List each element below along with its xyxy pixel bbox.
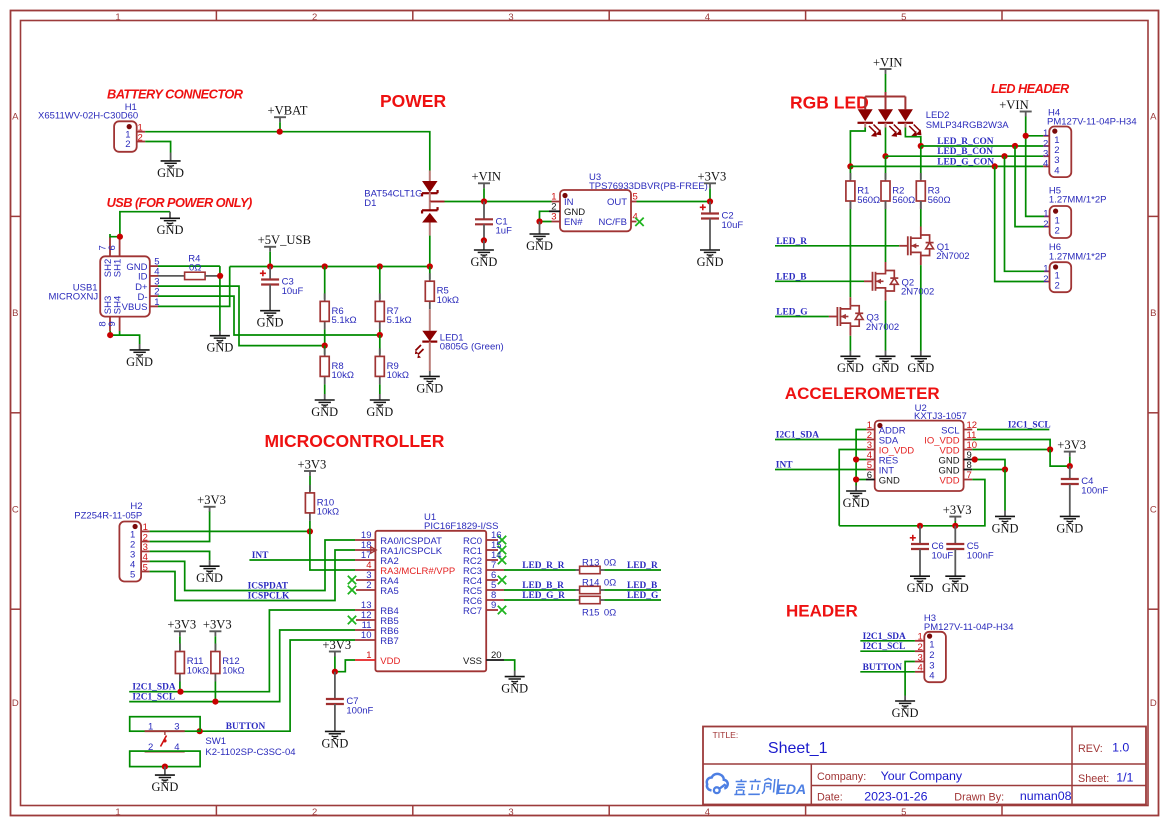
svg-text:GND: GND bbox=[907, 581, 934, 595]
EasyEDA logo cloud bbox=[707, 774, 728, 793]
svg-text:10kΩ: 10kΩ bbox=[387, 370, 409, 381]
wire H6 pin1 branch bbox=[1005, 156, 1045, 271]
svg-text:+3V3: +3V3 bbox=[203, 618, 232, 632]
ground GND R8 bbox=[324, 394, 326, 400]
ground GND U2 left bbox=[855, 486, 857, 492]
U1 pin 12 RB5 bbox=[356, 619, 375, 621]
svg-text:R13: R13 bbox=[582, 558, 599, 569]
IC U3 body bbox=[560, 190, 631, 231]
svg-text:100nF: 100nF bbox=[1081, 485, 1108, 496]
svg-text:9: 9 bbox=[491, 600, 496, 611]
svg-text:BUTTON: BUTTON bbox=[226, 722, 266, 732]
wire net I2C1_SDA accel bbox=[775, 439, 866, 441]
svg-text:10kΩ: 10kΩ bbox=[187, 665, 209, 676]
wire +3V3 out net bbox=[637, 201, 711, 203]
wire net LED_R bbox=[775, 245, 899, 247]
svg-text:+3V3: +3V3 bbox=[167, 618, 196, 632]
ground GND H2 bbox=[209, 560, 211, 566]
svg-text:2: 2 bbox=[312, 807, 317, 818]
wire LED2 left cathode to R1 node bbox=[864, 123, 866, 128]
svg-text:HEADER: HEADER bbox=[786, 602, 858, 621]
junction LED_R_CON to H5.2 bbox=[1012, 143, 1018, 149]
svg-text:GND: GND bbox=[1056, 521, 1083, 535]
svg-text:2N7002: 2N7002 bbox=[901, 287, 934, 298]
junction C2 bbox=[707, 198, 713, 204]
svg-text:+3V3: +3V3 bbox=[698, 170, 727, 184]
svg-text:LED_R: LED_R bbox=[627, 561, 658, 571]
switch SW1 top loop bbox=[130, 717, 200, 732]
wire net LED_G_R / R15 bbox=[504, 599, 576, 601]
svg-text:MICROXNJ: MICROXNJ bbox=[48, 292, 98, 303]
svg-text:3: 3 bbox=[174, 722, 179, 733]
connector H2 pins bbox=[141, 530, 150, 532]
svg-text:+3V3: +3V3 bbox=[943, 503, 972, 517]
junction U2 RES bbox=[853, 456, 859, 462]
capacitor C2 10uF bbox=[709, 202, 711, 214]
ground GND H3 bbox=[904, 696, 906, 702]
ground GND U1 VSS bbox=[514, 671, 516, 677]
svg-text:GND: GND bbox=[837, 361, 864, 375]
ground GND U3 bbox=[539, 222, 541, 235]
U3 pin 3 EN# bbox=[552, 221, 561, 223]
svg-text:10kΩ: 10kΩ bbox=[222, 665, 244, 676]
junction VDD C7 bbox=[332, 669, 338, 675]
svg-text:LED_B_CON: LED_B_CON bbox=[937, 147, 993, 157]
svg-text:6: 6 bbox=[107, 245, 118, 250]
resistor R6 5.1k bbox=[324, 267, 326, 300]
wire H2.5 ICSPCLK to RA1 bbox=[150, 550, 355, 601]
ground GND R4 bbox=[219, 331, 221, 336]
svg-text:I2C1_SCL: I2C1_SCL bbox=[1008, 421, 1051, 431]
svg-text:GND: GND bbox=[157, 223, 184, 237]
U3 pin 1 IN bbox=[552, 201, 561, 203]
ground GND C7 bbox=[334, 726, 336, 732]
svg-text:I2C1_SDA: I2C1_SDA bbox=[132, 683, 175, 693]
USB1 bottom pins 8 9 bbox=[109, 317, 111, 331]
IC U1 body bbox=[375, 531, 486, 672]
svg-text:GND: GND bbox=[416, 381, 443, 395]
U2 pin 7 VDD bbox=[964, 479, 973, 481]
svg-text:+3V3: +3V3 bbox=[1057, 438, 1086, 452]
wire net LED_B_CON bbox=[886, 155, 1044, 157]
svg-text:ACCELEROMETER: ACCELEROMETER bbox=[785, 384, 940, 403]
svg-text:K2-1102SP-C3SC-04: K2-1102SP-C3SC-04 bbox=[205, 747, 295, 758]
ground GND C4 bbox=[1069, 511, 1071, 517]
svg-text:Date:: Date: bbox=[817, 792, 843, 804]
svg-text:numan08: numan08 bbox=[1020, 789, 1072, 803]
svg-text:2: 2 bbox=[138, 133, 143, 144]
svg-text:POWER: POWER bbox=[380, 91, 446, 111]
svg-text:5: 5 bbox=[901, 807, 906, 818]
U2 pin 12 SCL bbox=[964, 429, 973, 431]
junction rail R7 bbox=[377, 263, 383, 269]
wire net LED_R_R / R13 bbox=[504, 569, 576, 571]
wire USB GND pin to ground bbox=[158, 265, 220, 267]
U3 pin 4 NC/FB no-connect bbox=[631, 221, 637, 223]
U1 pin 17 RA2 bbox=[355, 559, 375, 561]
svg-text:0805G (Green): 0805G (Green) bbox=[440, 341, 504, 352]
svg-text:GND: GND bbox=[257, 316, 284, 330]
svg-text:1.27MM/1*2P: 1.27MM/1*2P bbox=[1049, 251, 1107, 262]
svg-text:1: 1 bbox=[929, 640, 934, 651]
svg-text:1: 1 bbox=[366, 650, 371, 661]
svg-text:10kΩ: 10kΩ bbox=[317, 507, 339, 518]
svg-text:+VBAT: +VBAT bbox=[268, 104, 308, 118]
junction +VIN H4.1 bbox=[1023, 133, 1029, 139]
svg-text:I2C1_SCL: I2C1_SCL bbox=[132, 693, 175, 703]
U2 pin 1 ADDR bbox=[866, 429, 875, 431]
resistor R8 10k bbox=[324, 346, 326, 354]
svg-text:EDA: EDA bbox=[777, 781, 807, 797]
wire +5V_USB rail bbox=[230, 266, 430, 268]
svg-text:0Ω: 0Ω bbox=[189, 263, 201, 274]
svg-text:GND: GND bbox=[366, 405, 393, 419]
connector H4 pins bbox=[1043, 135, 1049, 137]
resistor R15 0ohm bbox=[576, 599, 580, 601]
U2 pin 10 VDD bbox=[964, 449, 973, 451]
svg-text:INT: INT bbox=[776, 461, 793, 471]
svg-text:D1: D1 bbox=[364, 198, 376, 209]
ground GND SW1 bbox=[164, 767, 166, 776]
svg-text:VDD: VDD bbox=[940, 475, 960, 486]
U1 pin 10 RB7 bbox=[355, 639, 375, 641]
wire VBUS to +5V rail bbox=[158, 267, 230, 307]
wire U2 pin11 pin10 to +3V3 C4 bbox=[972, 440, 1050, 450]
svg-text:MICROCONTROLLER: MICROCONTROLLER bbox=[265, 431, 445, 451]
junction U2 VDD pins bbox=[1047, 446, 1053, 452]
ground GND battery bbox=[170, 153, 172, 161]
svg-text:BUTTON: BUTTON bbox=[863, 663, 903, 673]
wire net BUTTON mcu bbox=[200, 640, 355, 731]
switch SW1 pins 2 4 bar bbox=[145, 751, 185, 753]
svg-text:Your Company: Your Company bbox=[881, 769, 963, 783]
svg-text:TITLE:: TITLE: bbox=[713, 730, 739, 740]
switch SW1 bottom loop bbox=[130, 751, 200, 767]
svg-text:LED_R: LED_R bbox=[776, 237, 807, 247]
border row ticks right bbox=[1148, 215, 1159, 217]
U1 pin 11 RB6 bbox=[355, 629, 375, 631]
border column ticks bottom bbox=[215, 806, 217, 816]
U1 pin 5 RC5 bbox=[486, 589, 504, 591]
svg-text:1: 1 bbox=[115, 12, 120, 23]
svg-text:A: A bbox=[12, 112, 19, 123]
capacitor C5 100nF bbox=[954, 526, 956, 544]
svg-text:LED_G: LED_G bbox=[627, 591, 659, 601]
connector H3 pins bbox=[915, 640, 924, 642]
resistor R7 5.1k bbox=[379, 267, 381, 300]
junction U2 GND6 bbox=[853, 476, 859, 482]
svg-text:+3V3: +3V3 bbox=[298, 457, 327, 471]
wire U1 VSS to ground bbox=[504, 660, 515, 671]
svg-text:4: 4 bbox=[705, 12, 710, 23]
svg-text:B: B bbox=[1150, 308, 1156, 319]
wire net LED_B right bbox=[605, 589, 662, 591]
resistor R9 10k bbox=[379, 335, 381, 354]
svg-text:C: C bbox=[1150, 505, 1157, 516]
svg-text:LED_G_R: LED_G_R bbox=[522, 591, 565, 601]
svg-text:Drawn By:: Drawn By: bbox=[954, 792, 1004, 804]
wire net LED_R_CON bbox=[921, 145, 1044, 147]
wire LED1 to ground bbox=[429, 342, 431, 371]
resistor R2 560ohm bbox=[885, 156, 887, 179]
U1 pin 15 RC1 bbox=[486, 549, 498, 551]
svg-text:5.1kΩ: 5.1kΩ bbox=[332, 315, 357, 326]
U2 pin 9 GND bbox=[964, 459, 973, 461]
svg-text:C: C bbox=[12, 505, 19, 516]
U2 pin 6 GND bbox=[866, 479, 875, 481]
svg-text:SW1: SW1 bbox=[205, 736, 226, 747]
junction C1 ground stub bbox=[481, 237, 487, 243]
svg-text:GND: GND bbox=[992, 521, 1019, 535]
wire H2.4 ICSPDAT to RA0 bbox=[150, 540, 355, 591]
wire Q1 source to ground bbox=[920, 265, 922, 350]
svg-text:GND: GND bbox=[196, 571, 223, 585]
ground GND C6 bbox=[919, 571, 921, 577]
svg-text:LED HEADER: LED HEADER bbox=[991, 81, 1070, 96]
svg-text:560Ω: 560Ω bbox=[892, 195, 915, 206]
svg-text:VDD: VDD bbox=[380, 656, 400, 667]
svg-text:USB (FOR POWER ONLY): USB (FOR POWER ONLY) bbox=[107, 195, 252, 210]
wire USB1 shield top to ground bbox=[110, 212, 170, 237]
wire net INT accel bbox=[775, 469, 866, 471]
svg-text:10uF: 10uF bbox=[932, 550, 954, 561]
junction LED_B_CON to H6.1 bbox=[1001, 153, 1007, 159]
wire MCLR to RA3 bbox=[310, 531, 355, 570]
svg-text:3: 3 bbox=[508, 12, 513, 23]
wire net I2C1_SCL mcu bbox=[129, 630, 355, 702]
svg-text:A: A bbox=[1150, 112, 1157, 123]
capacitor C4 100nF bbox=[1069, 466, 1071, 479]
U1 pin 13 RB4 bbox=[355, 609, 375, 611]
capacitor C3 10uF bbox=[269, 267, 271, 280]
ground GND U2 right bbox=[1004, 511, 1006, 517]
svg-text:INT: INT bbox=[252, 551, 269, 561]
EasyEDA logo text bbox=[734, 779, 778, 795]
diode D1 upper schottky bbox=[429, 171, 431, 182]
wire net I2C1_SDA mcu bbox=[129, 610, 355, 692]
title block dividers bbox=[703, 763, 1146, 765]
svg-text:I2C1_SCL: I2C1_SCL bbox=[863, 642, 906, 652]
svg-text:2: 2 bbox=[1055, 281, 1060, 292]
wire net LED_G_CON bbox=[850, 165, 1043, 167]
U1 pin 19 RA0/ICSPDAT bbox=[355, 539, 375, 541]
svg-text:0Ω: 0Ω bbox=[604, 607, 616, 618]
LED2 red chip bbox=[858, 109, 873, 121]
wire H3 pin3 to ground bbox=[905, 662, 915, 696]
svg-text:RB7: RB7 bbox=[380, 636, 398, 647]
svg-text:LED_B: LED_B bbox=[776, 272, 806, 282]
USB1 right pins bbox=[150, 265, 158, 267]
svg-text:5: 5 bbox=[143, 562, 148, 573]
svg-text:REV:: REV: bbox=[1078, 743, 1103, 755]
wire LED2 right cathode to R3 node bbox=[904, 123, 906, 128]
junction C5 rail bbox=[952, 523, 958, 529]
svg-text:R14: R14 bbox=[582, 577, 599, 588]
svg-text:EN#: EN# bbox=[564, 217, 583, 228]
wire H2.2 to +3V3 bbox=[150, 512, 210, 542]
svg-text:6: 6 bbox=[867, 470, 872, 481]
svg-text:LED_G: LED_G bbox=[776, 308, 808, 318]
svg-text:+5V_USB: +5V_USB bbox=[258, 233, 311, 247]
svg-text:3: 3 bbox=[508, 807, 513, 818]
junction C6 rail bbox=[917, 523, 923, 529]
svg-text:2: 2 bbox=[312, 12, 317, 23]
ground GND C2 bbox=[700, 249, 720, 251]
wire VDD net bbox=[335, 660, 355, 672]
svg-text:GND: GND bbox=[843, 496, 870, 510]
svg-text:X6511WV-02H-C30D60: X6511WV-02H-C30D60 bbox=[38, 111, 138, 122]
ground GND R9 bbox=[379, 394, 381, 400]
wire U2 pin7 and pin3 to +3V3 rail bbox=[839, 480, 985, 526]
resistor R3 560ohm bbox=[920, 146, 922, 179]
wire D1 bottom to +5V rail bbox=[429, 236, 431, 267]
svg-text:10kΩ: 10kΩ bbox=[332, 370, 354, 381]
svg-text:R15: R15 bbox=[582, 607, 599, 618]
svg-text:+VIN: +VIN bbox=[472, 170, 502, 184]
svg-text:GND: GND bbox=[157, 166, 184, 180]
svg-text:5: 5 bbox=[901, 12, 906, 23]
svg-text:PZ254R-11-05P: PZ254R-11-05P bbox=[74, 510, 142, 521]
node +VIN mid junction of D1 bbox=[430, 201, 445, 203]
wire net BUTTON header bbox=[860, 671, 915, 673]
svg-text:2: 2 bbox=[366, 580, 371, 591]
svg-text:GND: GND bbox=[907, 361, 934, 375]
svg-text:2023-01-26: 2023-01-26 bbox=[864, 790, 927, 804]
wire USB1 shield bottom to ground bbox=[110, 331, 139, 344]
junction U3 EN bbox=[536, 218, 542, 224]
resistor R5 10k bbox=[429, 267, 431, 280]
resistor R14 0ohm bbox=[576, 589, 580, 591]
svg-text:1/1: 1/1 bbox=[1116, 771, 1133, 785]
wire Q3 source to ground bbox=[849, 336, 851, 351]
svg-text:4: 4 bbox=[705, 807, 710, 818]
connector H2 body bbox=[119, 522, 141, 582]
svg-text:ICSPDAT: ICSPDAT bbox=[248, 582, 289, 592]
svg-text:+3V3: +3V3 bbox=[197, 493, 226, 507]
svg-text:0Ω: 0Ω bbox=[604, 558, 616, 569]
svg-text:7: 7 bbox=[967, 470, 972, 481]
ground GND Q2 bbox=[885, 351, 887, 357]
connector H3 body bbox=[924, 632, 946, 682]
svg-text:+VIN: +VIN bbox=[873, 55, 903, 69]
U3 pin 5 OUT bbox=[631, 201, 637, 203]
wire U3 EN GND tie bbox=[540, 211, 552, 221]
connector H4 body bbox=[1049, 127, 1071, 178]
wire H2.1 to R10/MCLR bbox=[150, 530, 310, 532]
junction R12 SCL bbox=[212, 699, 218, 705]
svg-text:OUT: OUT bbox=[607, 197, 627, 208]
ground GND Q3 bbox=[849, 351, 851, 357]
svg-text:I2C1_SDA: I2C1_SDA bbox=[776, 431, 819, 441]
wire net LED_B_R / R14 bbox=[504, 589, 576, 591]
wire H6 pin2 branch bbox=[995, 166, 1044, 281]
title block outline bbox=[703, 727, 1146, 805]
svg-text:1: 1 bbox=[148, 722, 153, 733]
svg-text:10uF: 10uF bbox=[722, 220, 744, 231]
U1 pin 9 RC7 bbox=[486, 609, 498, 611]
svg-text:RGB LED: RGB LED bbox=[790, 93, 869, 113]
svg-text:GND: GND bbox=[151, 780, 178, 794]
LED1 0805G green bbox=[422, 331, 437, 342]
svg-text:2N7002: 2N7002 bbox=[866, 322, 899, 333]
ground GND C5 bbox=[954, 571, 956, 577]
wire LED2 mid cathode to R2 node bbox=[885, 123, 887, 128]
U1 pin 14 RC2 bbox=[486, 559, 498, 561]
svg-text:D: D bbox=[1150, 698, 1157, 709]
junction LED_G_CON to H6.2 bbox=[992, 163, 998, 169]
wire Q2 source to ground bbox=[885, 301, 887, 351]
capacitor C1 1uF bbox=[483, 202, 485, 220]
svg-text:1: 1 bbox=[918, 632, 923, 643]
wire D- to R7/R9 junction bbox=[158, 296, 380, 335]
U1 pin 7 RC3 bbox=[486, 569, 504, 571]
svg-text:5.1kΩ: 5.1kΩ bbox=[387, 315, 412, 326]
junction R4 right bbox=[217, 273, 223, 279]
ground GND USB top bbox=[169, 212, 171, 219]
svg-text:10: 10 bbox=[361, 630, 372, 641]
svg-text:GND: GND bbox=[311, 405, 338, 419]
svg-text:2: 2 bbox=[1043, 219, 1048, 230]
border row ticks left bbox=[11, 215, 21, 217]
svg-text:LED_B_R: LED_B_R bbox=[522, 581, 564, 591]
svg-text:0Ω: 0Ω bbox=[604, 577, 616, 588]
svg-text:GND: GND bbox=[879, 475, 900, 486]
wire net I2C1_SCL header bbox=[860, 650, 915, 652]
connector H1 pin 2 bbox=[137, 141, 146, 143]
svg-text:NC/FB: NC/FB bbox=[599, 217, 628, 228]
U2 pin 8 GND bbox=[964, 469, 973, 471]
svg-text:4: 4 bbox=[633, 212, 638, 223]
junction SW1 pin3 bbox=[197, 728, 203, 734]
wire +VIN net bbox=[445, 201, 552, 203]
resistor R4 0ohm bbox=[158, 275, 185, 277]
junction R2 LED_B_CON bbox=[882, 153, 888, 159]
wire D+ to R6/R8 junction bbox=[158, 286, 325, 346]
junction R10 MCLR bbox=[307, 528, 313, 534]
resistor R1 560ohm bbox=[849, 166, 851, 179]
wire U2 ADDR RES GND tie bbox=[856, 430, 866, 486]
resistor R13 0ohm bbox=[576, 569, 580, 571]
junction rail R6 bbox=[322, 263, 328, 269]
transistor Q1 2N7002 bbox=[899, 245, 908, 247]
wire net I2C1_SCL accel bbox=[977, 429, 1049, 431]
connector H5 body bbox=[1050, 206, 1072, 238]
U1 pin 20 VSS bbox=[486, 659, 504, 661]
svg-text:1: 1 bbox=[115, 807, 120, 818]
connector USB1 body bbox=[100, 256, 150, 316]
wire net INT mcu bbox=[249, 559, 355, 561]
ground GND LED1 bbox=[429, 371, 431, 376]
ground GND Q1 bbox=[920, 351, 922, 357]
connector H6 pins bbox=[1044, 270, 1050, 272]
junction R11 SDA bbox=[177, 689, 183, 695]
junction R6 R8 D+ bbox=[322, 343, 328, 349]
wire H5 pin2 branch bbox=[1015, 146, 1044, 227]
svg-text:SMLP34RGB2W3A: SMLP34RGB2W3A bbox=[926, 120, 1010, 131]
diode D1 lower schottky bbox=[429, 202, 431, 211]
wire U2 pin9 pin8 to ground bbox=[972, 460, 1005, 470]
junction R7 R9 D- bbox=[377, 332, 383, 338]
svg-text:GND: GND bbox=[206, 341, 233, 355]
svg-text:10kΩ: 10kΩ bbox=[437, 295, 459, 306]
svg-text:GND: GND bbox=[526, 239, 553, 253]
svg-text:GND: GND bbox=[942, 581, 969, 595]
U2 pin 2 SDA bbox=[866, 439, 875, 441]
svg-text:3: 3 bbox=[551, 212, 556, 223]
capacitor C7 100nF bbox=[334, 672, 336, 699]
svg-text:LED_R_R: LED_R_R bbox=[522, 561, 564, 571]
svg-text:GND: GND bbox=[126, 355, 153, 369]
